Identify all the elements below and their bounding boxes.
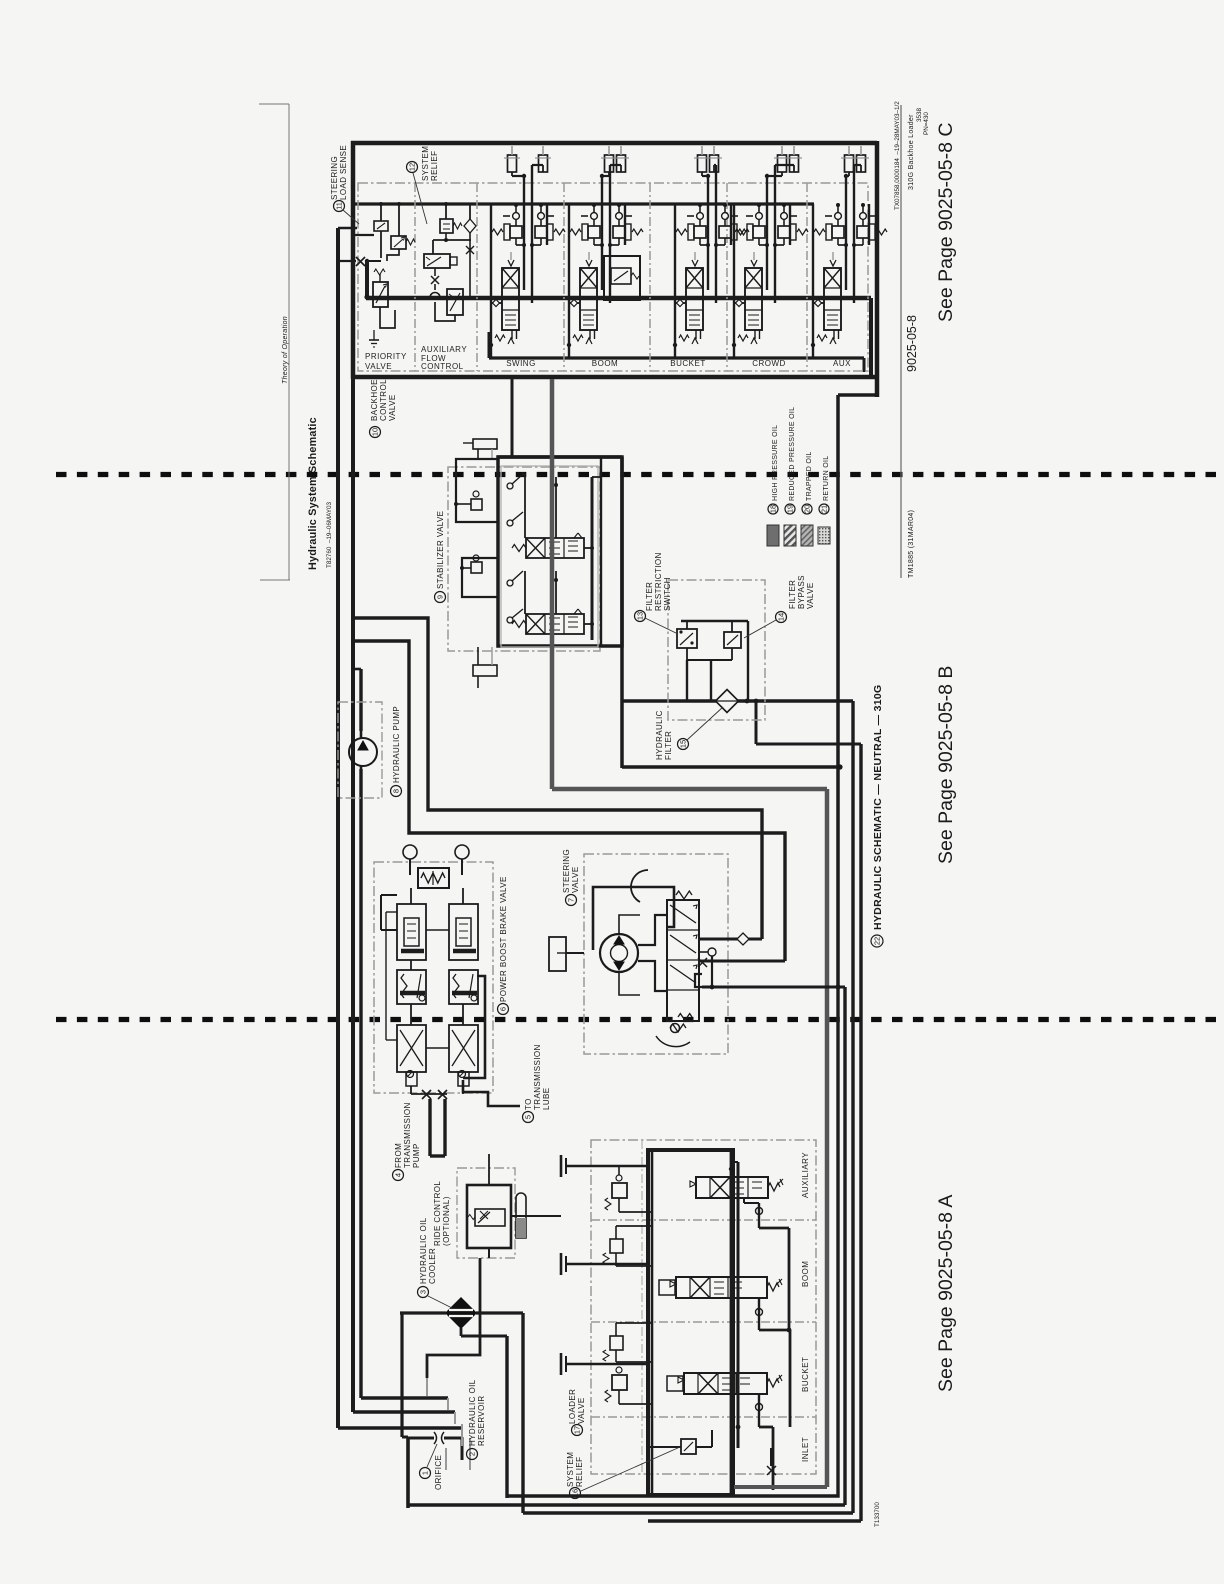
steering arc arrow xyxy=(631,870,648,902)
svg-text:CONTROL: CONTROL xyxy=(379,379,388,421)
svg-text:ORIFICE: ORIFICE xyxy=(434,1455,443,1490)
svg-text:(OPTIONAL): (OPTIONAL) xyxy=(442,1196,451,1246)
aux flow bridge over rail xyxy=(430,284,440,298)
stabilizer spool upper xyxy=(512,533,584,558)
brake valve left stack xyxy=(397,888,426,1086)
hydraulic pump circle xyxy=(349,731,377,769)
svg-text:Theory of Operation: Theory of Operation xyxy=(282,316,289,384)
svg-text:FILTER: FILTER xyxy=(788,580,797,609)
svg-text:VALVE: VALVE xyxy=(577,1397,586,1424)
brake valve right loop wire xyxy=(463,976,485,1078)
svg-text:HYDRAULIC SCHEMATIC — NEUTRAL: HYDRAULIC SCHEMATIC — NEUTRAL — 310G xyxy=(872,684,884,930)
svg-text:BOOM: BOOM xyxy=(801,1261,810,1287)
right margin rule xyxy=(900,105,902,578)
svg-text:RELIEF: RELIEF xyxy=(430,151,439,181)
stabilizer valve dash-dot box xyxy=(448,467,600,651)
svg-text:CONTROL: CONTROL xyxy=(421,362,464,371)
priority pressure reducing valve xyxy=(387,202,415,261)
svg-text:HYDRAULIC: HYDRAULIC xyxy=(655,710,664,760)
svg-text:RETURN OIL: RETURN OIL xyxy=(823,456,830,501)
ride control stems xyxy=(488,1168,490,1185)
svg-text:BACKHOE: BACKHOE xyxy=(370,379,379,421)
svg-text:15: 15 xyxy=(679,740,688,748)
svg-text:VALVE: VALVE xyxy=(365,362,392,371)
callout 1 ORIFICE xyxy=(420,1468,431,1479)
boom section valves xyxy=(567,146,643,358)
loader valve dash-dot box xyxy=(591,1140,816,1474)
svg-text:RESTRICTION: RESTRICTION xyxy=(654,552,663,611)
svg-text:9: 9 xyxy=(436,595,445,599)
right trunk lines to loader xyxy=(843,987,846,1505)
caption number 22 xyxy=(871,935,883,947)
svg-text:HIGH PRESSURE OIL: HIGH PRESSURE OIL xyxy=(772,425,779,501)
svg-text:See Page 9025-05-8 C: See Page 9025-05-8 C xyxy=(935,123,957,322)
steering spool column xyxy=(667,891,699,1032)
svg-text:INLET: INLET xyxy=(801,1437,810,1462)
svg-text:5: 5 xyxy=(524,1115,533,1119)
swing section valves xyxy=(489,146,565,358)
svg-text:14: 14 xyxy=(777,613,786,621)
loader aux spool xyxy=(690,1177,783,1198)
to transmission lube wire xyxy=(463,1080,520,1106)
svg-text:HYDRAULIC OIL: HYDRAULIC OIL xyxy=(419,1217,428,1284)
hydraulic oil reservoir tank xyxy=(408,1437,523,1508)
svg-text:LOADER: LOADER xyxy=(568,1389,577,1424)
brake valve bottom X marks xyxy=(422,1090,431,1099)
aux flow X mark xyxy=(431,276,439,284)
steering wires to gerotor xyxy=(619,915,667,995)
brake valve right stack xyxy=(449,888,478,1086)
svg-text:18: 18 xyxy=(769,505,778,513)
wire: steering load sense trunk xyxy=(336,228,340,1428)
callout 7 STEERING VALVE xyxy=(566,895,577,906)
svg-text:AUX: AUX xyxy=(833,359,851,368)
power boost brake valve dash-dot box xyxy=(374,862,493,1093)
from transmission pump U-pipe xyxy=(430,1099,445,1156)
callout 15 HYDRAULIC FILTER xyxy=(678,739,689,750)
svg-text:HYDRAULIC PUMP: HYDRAULIC PUMP xyxy=(392,706,401,783)
svg-text:SWITCH: SWITCH xyxy=(663,577,672,611)
filter bypass valve xyxy=(724,621,741,660)
filter restriction switch xyxy=(677,621,697,660)
callout 14 FILTER BYPASS VALVE xyxy=(776,612,787,623)
hydraulic oil cooler diamond xyxy=(446,1298,476,1328)
steering tank symbol xyxy=(549,937,584,971)
svg-text:SWING: SWING xyxy=(506,359,536,368)
wire: priority to heavy rail xyxy=(365,261,369,298)
stabilizer lower-left loop xyxy=(460,555,498,597)
svg-text:AUXILIARY: AUXILIARY xyxy=(801,1152,810,1198)
brake valve spring box xyxy=(418,868,449,888)
svg-text:LOAD SENSE: LOAD SENSE xyxy=(339,145,348,200)
reservoir right feed xyxy=(461,1313,523,1513)
ride control body xyxy=(467,1185,511,1248)
priority load sense valve xyxy=(353,202,388,258)
brake valve internal wires xyxy=(381,895,449,1048)
svg-text:7: 7 xyxy=(567,898,576,902)
svg-text:T82760 –19–06MAY03: T82760 –19–06MAY03 xyxy=(326,501,333,568)
bucket section valves xyxy=(673,146,749,358)
svg-text:6: 6 xyxy=(499,1007,508,1011)
svg-text:HYDRAULIC OIL: HYDRAULIC OIL xyxy=(468,1379,477,1446)
return notch to trunk xyxy=(755,701,758,744)
callout 5 TO TRANSMISSION LUBE xyxy=(523,1112,534,1123)
svg-text:4: 4 xyxy=(394,1173,403,1177)
steering bottom circle and arc xyxy=(671,1024,680,1033)
stabilizer angled check valves xyxy=(507,472,558,623)
priority main spool xyxy=(373,269,395,328)
wire: reservoir return bends xyxy=(338,1426,462,1430)
svg-text:9025-05-8: 9025-05-8 xyxy=(905,315,919,372)
svg-text:STEERING: STEERING xyxy=(562,849,571,893)
svg-text:2: 2 xyxy=(468,1452,477,1456)
callout 10 BACKHOE CONTROL VALVE xyxy=(370,427,381,438)
svg-text:COOLER: COOLER xyxy=(428,1248,437,1284)
cooler line xyxy=(400,1311,446,1314)
svg-text:RIDE CONTROL: RIDE CONTROL xyxy=(433,1181,442,1246)
callout 12 SYSTEM RELIEF xyxy=(407,162,418,173)
svg-text:BUCKET: BUCKET xyxy=(801,1357,810,1392)
callout 17 LOADER VALVE xyxy=(572,1425,583,1436)
aux flow anticavitation check xyxy=(464,204,476,254)
callout 8 HYDRAULIC PUMP xyxy=(391,786,402,797)
stabilizer upper-left loop xyxy=(454,459,498,522)
backhoe valve dash-dot boundary xyxy=(358,183,868,371)
wire: steering feed inner xyxy=(353,641,785,961)
svg-text:3: 3 xyxy=(419,1290,428,1294)
svg-text:TO: TO xyxy=(524,1098,533,1110)
svg-text:See Page 9025-05-8 B: See Page 9025-05-8 B xyxy=(935,666,957,864)
svg-text:Hydraulic System Schematic: Hydraulic System Schematic xyxy=(307,417,319,570)
svg-text:CROWD: CROWD xyxy=(752,359,786,368)
svg-text:17: 17 xyxy=(573,1426,582,1434)
svg-text:TRANSMISSION: TRANSMISSION xyxy=(403,1102,412,1168)
svg-text:310G Backhoe Loader: 310G Backhoe Loader xyxy=(908,114,915,190)
boom lock valve xyxy=(604,256,640,300)
return trunk right vertical xyxy=(836,395,840,986)
stabilizer pilot top xyxy=(463,439,497,459)
svg-text:1: 1 xyxy=(421,1471,430,1475)
ride control valve xyxy=(468,1209,505,1226)
svg-text:LUBE: LUBE xyxy=(542,1088,551,1111)
backhoe control valve body frame xyxy=(351,141,877,397)
wire: block to stabilizer xyxy=(511,379,514,457)
svg-text:SYSTEM: SYSTEM xyxy=(566,1452,575,1487)
loader valve body xyxy=(648,1150,733,1495)
svg-text:PN=430: PN=430 xyxy=(923,112,930,135)
aux flow bypass valve xyxy=(435,240,470,321)
svg-text:8: 8 xyxy=(392,789,401,793)
svg-text:FILTER: FILTER xyxy=(645,582,654,611)
svg-text:11: 11 xyxy=(335,202,344,210)
svg-text:AUXILIARY: AUXILIARY xyxy=(421,345,467,354)
wire: pump suction line xyxy=(359,669,362,731)
priority load sense X mark xyxy=(356,257,365,266)
steering outer loop xyxy=(593,887,674,950)
wire: pressure line to stabilizer/loader (gray trunk) xyxy=(552,379,827,1487)
svg-text:BYPASS: BYPASS xyxy=(797,575,806,609)
steering valve dash-dot box xyxy=(584,854,728,1054)
stabilizer pilot bottom xyxy=(473,647,497,688)
brake valve gauge circles xyxy=(403,845,417,859)
reservoir left feed wall xyxy=(400,1313,403,1437)
svg-text:10: 10 xyxy=(371,428,380,436)
return line with filter xyxy=(622,699,853,703)
return line bottom xyxy=(622,765,840,769)
svg-text:FILTER: FILTER xyxy=(664,731,673,760)
callout 13 FILTER RESTRICTION SWITCH xyxy=(635,611,646,622)
svg-text:13: 13 xyxy=(636,612,645,620)
ride control dash-dot box xyxy=(457,1168,515,1258)
callout 3 HYDRAULIC OIL COOLER xyxy=(418,1287,429,1298)
svg-text:TRANSMISSION: TRANSMISSION xyxy=(533,1044,542,1110)
callout 4 FROM TRANSMISSION PUMP xyxy=(393,1170,404,1181)
svg-text:VALVE: VALVE xyxy=(806,582,815,609)
svg-text:12: 12 xyxy=(408,163,417,171)
loader inlet valve xyxy=(650,1430,776,1490)
svg-text:BUCKET: BUCKET xyxy=(670,359,705,368)
svg-text:SYSTEM: SYSTEM xyxy=(421,146,430,181)
hydraulic pump dash-dot box xyxy=(338,702,382,798)
bottom return lines xyxy=(507,986,861,1521)
steering outputs xyxy=(695,933,845,990)
reservoir internal pipe stubs xyxy=(446,1424,470,1470)
callout 16 SYSTEM RELIEF xyxy=(570,1488,581,1499)
loader relief valves xyxy=(605,1166,627,1212)
hydraulic filter symbol xyxy=(716,690,739,713)
svg-text:PRIORITY: PRIORITY xyxy=(365,352,407,361)
page break dashed line (bottom) xyxy=(56,1017,1224,1022)
loader boom spool xyxy=(659,1277,782,1298)
svg-text:VALVE: VALVE xyxy=(388,394,397,421)
loader bucket spool xyxy=(667,1373,782,1394)
filter dash-dot box xyxy=(668,580,765,720)
svg-text:20: 20 xyxy=(803,505,812,513)
callout 9 STABILIZER VALVE xyxy=(435,592,446,603)
stabilizer valve body xyxy=(498,457,622,646)
svg-text:TM1885 (31MAR04): TM1885 (31MAR04) xyxy=(908,510,915,578)
svg-text:21: 21 xyxy=(820,505,829,513)
svg-text:POWER BOOST BRAKE VALVE: POWER BOOST BRAKE VALVE xyxy=(499,876,508,1002)
stabilizer right connections xyxy=(584,477,601,626)
return manifold top (stabilizer top shared) xyxy=(497,455,622,459)
svg-text:STABILIZER VALVE: STABILIZER VALVE xyxy=(436,511,445,589)
orifice symbol xyxy=(434,1432,444,1444)
svg-text:STEERING: STEERING xyxy=(330,156,339,200)
crowd section valves xyxy=(732,146,808,358)
svg-text:PUMP: PUMP xyxy=(412,1143,421,1168)
aux flow control solenoid valve xyxy=(424,254,457,268)
svg-text:TX07858,0000184 –19–28MAY03–1: TX07858,0000184 –19–28MAY03–1/2 xyxy=(894,101,901,210)
callout 6 POWER BOOST BRAKE VALVE xyxy=(498,1004,509,1015)
svg-text:19: 19 xyxy=(786,505,795,513)
svg-text:3538: 3538 xyxy=(916,107,923,122)
wire ride control to cooler xyxy=(427,1258,480,1378)
aux section valves xyxy=(811,146,887,358)
stabilizer inner gallery xyxy=(591,477,594,640)
svg-text:22: 22 xyxy=(873,937,882,945)
wire: steering feed outer xyxy=(353,618,762,939)
svg-text:BOOM: BOOM xyxy=(592,359,618,368)
svg-text:RESERVOIR: RESERVOIR xyxy=(477,1395,486,1446)
svg-text:REDUCED PRESSURE OIL: REDUCED PRESSURE OIL xyxy=(789,407,796,501)
svg-text:See Page 9025-05-8 A: See Page 9025-05-8 A xyxy=(935,1195,957,1392)
svg-text:TRAPPED OIL: TRAPPED OIL xyxy=(806,451,813,501)
left margin bracket xyxy=(259,104,290,580)
stabilizer spool lower xyxy=(512,609,584,634)
loader internal left wires xyxy=(616,1150,652,1495)
wire: left trunk (block left edge down) xyxy=(351,379,355,1412)
svg-text:FROM: FROM xyxy=(394,1143,403,1168)
return manifold left edge xyxy=(620,457,624,768)
filter block wires xyxy=(681,621,748,701)
priority tank symbol xyxy=(369,330,379,347)
brake valve black bands and details xyxy=(400,951,477,1078)
aux flow relief valve xyxy=(440,202,462,240)
aux flow wire y240 xyxy=(433,239,471,241)
loader right gallery wires xyxy=(729,1150,792,1495)
steering gerotor xyxy=(600,934,638,972)
callout 2 HYDRAULIC OIL RESERVOIR xyxy=(467,1449,478,1460)
callout 11 STEERING LOAD SENSE xyxy=(334,201,345,212)
svg-text:VALVE: VALVE xyxy=(571,866,580,893)
page break dashed line (top) xyxy=(56,472,1224,477)
svg-text:T133700: T133700 xyxy=(874,1502,881,1527)
loader work ports xyxy=(561,1155,648,1177)
stabilizer inner dash-dot box xyxy=(501,466,598,647)
svg-text:RELIEF: RELIEF xyxy=(575,1457,584,1487)
ride control accumulator xyxy=(516,1193,526,1238)
